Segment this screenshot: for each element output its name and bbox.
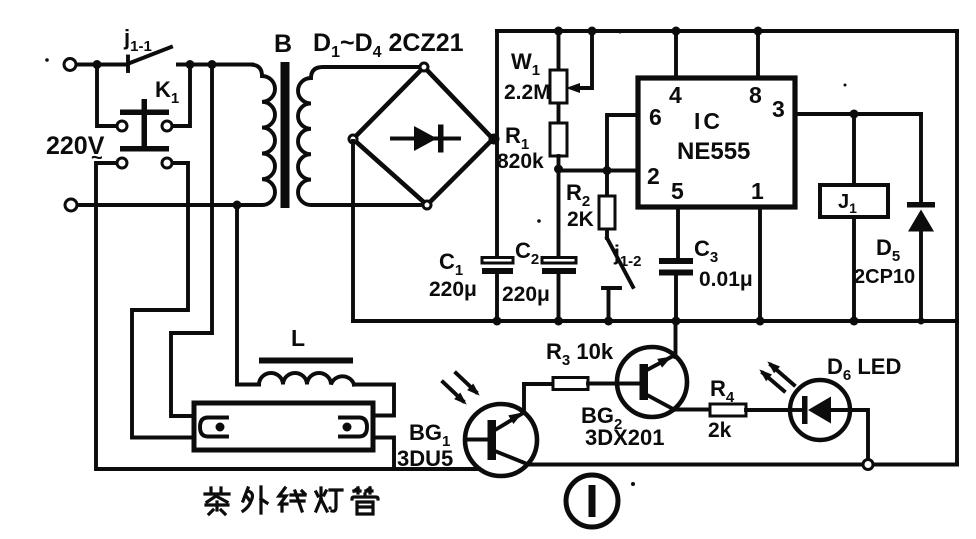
svg-text:2k: 2k [708, 419, 732, 442]
svg-text:3: 3 [772, 96, 785, 122]
wire from top rail to tube upper-left pin [171, 65, 212, 417]
capacitor C1 [482, 258, 513, 322]
node pin6/R2 dot [603, 166, 612, 175]
wire lamp-loop from K1 lower-left contact, down and along bottom [96, 163, 479, 469]
svg-text:3DU5: 3DU5 [397, 446, 453, 471]
transistor BG2 [617, 321, 687, 417]
svg-text:2: 2 [647, 163, 660, 189]
wire bridge negative output down [351, 141, 355, 321]
LED D6 [790, 380, 868, 462]
relay contact K1 [97, 65, 190, 169]
inductor L core bar [259, 358, 353, 364]
op-amp U1 IC NE555 box [638, 78, 795, 207]
label UV lamp tube (Chinese) [205, 487, 378, 514]
terminal 220V line top [64, 59, 126, 71]
wire pin6 tie to pin2 [607, 115, 639, 171]
svg-text:0.01μ: 0.01μ [699, 268, 753, 291]
UV lamp tube [194, 403, 373, 450]
transformer B secondary winding [298, 67, 428, 205]
transformer core [281, 62, 290, 208]
resistor R4 [674, 404, 803, 416]
node ground rail dots [493, 317, 925, 326]
node R1/C2/pin2 junction [554, 165, 639, 174]
wire top rail to transformer [178, 63, 252, 67]
svg-text:220μ: 220μ [429, 278, 477, 301]
light arrows from LED D6 [756, 358, 794, 391]
node LED junction on bottom wire [863, 460, 873, 470]
phototransistor BG1 [465, 384, 537, 476]
label 220V [46, 132, 105, 169]
wire pin1 [758, 206, 762, 321]
svg-text:2CP10: 2CP10 [854, 266, 915, 288]
node dot at transformer bottom [233, 201, 242, 210]
resistor R1 [550, 123, 567, 168]
resistor R3 [524, 378, 617, 390]
wire top +V rail [497, 29, 957, 33]
transformer B primary winding [78, 65, 276, 206]
inductor L coil [259, 373, 354, 385]
svg-text:2.2M: 2.2M [504, 81, 551, 104]
node top rail dots [554, 27, 763, 36]
light arrows into BG1 [443, 373, 483, 408]
bridge rectifier D1-D4 [349, 63, 500, 209]
wire transformer bottom node to inductor L [237, 205, 259, 385]
relay J1 [820, 114, 888, 321]
switch j1-2 [603, 238, 633, 321]
diode D5 [907, 114, 935, 321]
wire pin8 [756, 31, 760, 79]
svg-text:NE555: NE555 [677, 138, 750, 165]
svg-text:4: 4 [669, 82, 682, 108]
wire tube lower-right pin down to bottom wire [371, 438, 394, 470]
svg-text:5: 5 [671, 178, 684, 204]
wire ground rail [353, 319, 957, 323]
potentiometer W1 [550, 31, 592, 123]
capacitor C2 [542, 170, 576, 322]
terminal 220V line bottom [65, 199, 77, 211]
wire pin3 [794, 112, 921, 116]
svg-text:220μ: 220μ [502, 283, 550, 306]
capacitor C3 [659, 206, 693, 321]
wire pin4 [674, 31, 678, 79]
svg-text:820k: 820k [497, 150, 544, 173]
wire from K1 lower-right contact to tube lower-left pin [132, 163, 196, 438]
svg-text:IC: IC [694, 108, 723, 134]
svg-text:6: 6 [649, 104, 662, 130]
wire bridge positive output / left vertical of DC section [493, 31, 497, 258]
svg-text:1: 1 [751, 178, 764, 204]
svg-text:2K: 2K [567, 208, 594, 231]
switch J1-1 [128, 47, 171, 71]
node top rail dots [93, 60, 217, 69]
wire right edge [955, 31, 959, 465]
svg-text:8: 8 [749, 82, 762, 108]
wire coil right to tube upper-right pin [354, 385, 394, 416]
scan speckles [45, 31, 846, 510]
wire bottom right segment [520, 463, 957, 467]
indicator lamp I [566, 475, 618, 527]
svg-text:L: L [291, 325, 305, 351]
bridge inner diode symbol [392, 125, 459, 153]
node pin3 dot [850, 110, 859, 119]
svg-text:B: B [274, 30, 292, 58]
resistor R2 [599, 171, 615, 239]
svg-text:3DX201: 3DX201 [585, 425, 665, 450]
